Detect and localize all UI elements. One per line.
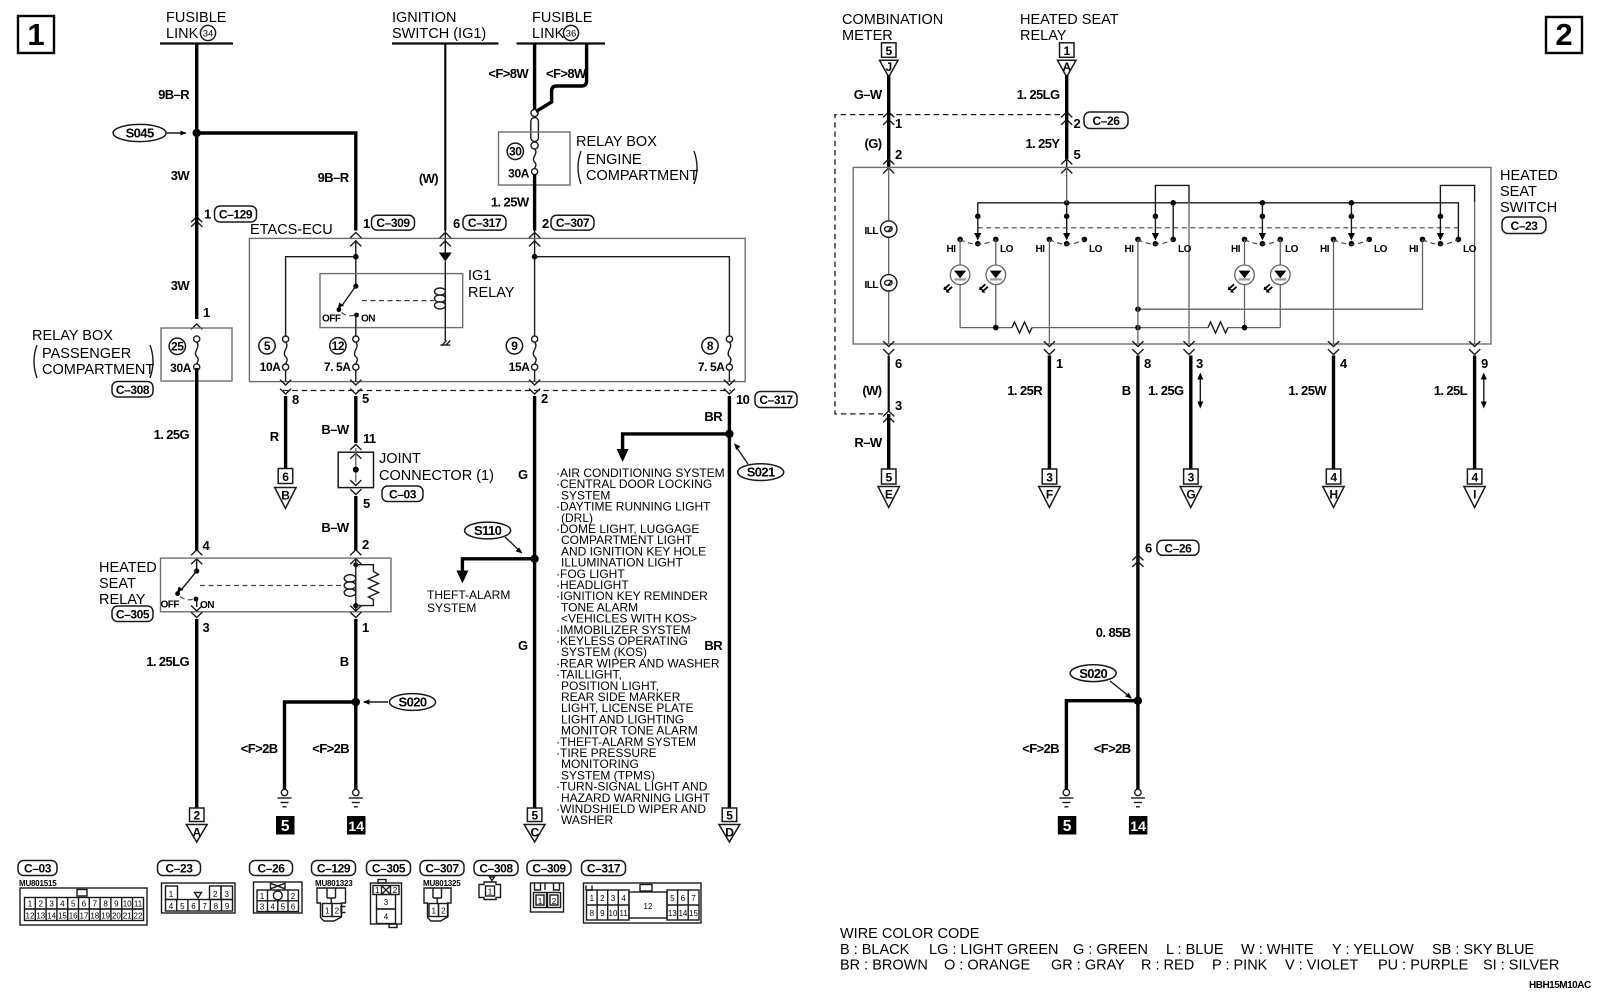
splice S045 [113, 124, 201, 141]
wire S045 branch right to ETACS pin 1 [197, 133, 356, 231]
pin5 wire to g2 center [1066, 167, 1068, 202]
wire fusible link 34 down to S045 [195, 44, 198, 134]
svg-text:HEATED: HEATED [99, 560, 157, 576]
terminal 4-I [1464, 469, 1485, 508]
svg-text:4: 4 [60, 900, 65, 909]
g4 center feed [1259, 203, 1266, 241]
svg-text:3W: 3W [171, 168, 191, 183]
svg-text:HI: HI [1409, 244, 1419, 255]
svg-text:C–26: C–26 [257, 862, 285, 876]
svg-text:JOINT: JOINT [379, 451, 421, 467]
svg-text:5: 5 [362, 391, 369, 406]
ETACS branch to fuse 5 [286, 257, 356, 336]
LED g1 LO [980, 239, 1006, 327]
svg-text:SWITCH: SWITCH [1500, 200, 1557, 216]
svg-text:3W: 3W [171, 278, 191, 293]
connector C-129 pinout [317, 888, 346, 921]
svg-text:1: 1 [431, 907, 436, 916]
svg-text:2: 2 [552, 897, 557, 906]
svg-text:2: 2 [441, 907, 446, 916]
svg-text:1. 25W: 1. 25W [491, 195, 530, 210]
svg-text:4: 4 [1471, 471, 1478, 485]
g6 HI return line [1135, 239, 1422, 312]
wire 1.25LG relay to crossing [1065, 75, 1068, 111]
svg-text:1. 25G: 1. 25G [154, 427, 190, 442]
svg-text:F: F [1046, 488, 1053, 502]
svg-text:10: 10 [609, 909, 618, 918]
svg-text:6: 6 [895, 356, 902, 371]
wire color code [840, 926, 1559, 974]
bus junction dots [1064, 200, 1354, 206]
svg-text:J: J [886, 60, 892, 74]
switch box exit chevrons pin4 [1328, 341, 1339, 354]
svg-text:2: 2 [393, 886, 398, 895]
svg-text:H: H [1329, 488, 1337, 502]
svg-text:RELAY: RELAY [1020, 28, 1067, 44]
rocker g3 [1125, 237, 1192, 255]
svg-text:R : RED: R : RED [1141, 958, 1194, 974]
wire IG1 down to ETACS pin 6 [444, 44, 446, 231]
svg-text:ILL: ILL [865, 226, 879, 237]
svg-text:IG1: IG1 [468, 268, 491, 284]
svg-text:<F>8W: <F>8W [546, 66, 587, 81]
svg-text:4: 4 [621, 894, 626, 903]
terminal 4-H [1323, 469, 1344, 508]
IG1 relay coil ground [440, 341, 450, 346]
ETACS branch to fuse 8 [535, 257, 730, 336]
svg-text:34: 34 [203, 29, 214, 40]
svg-text:4: 4 [169, 902, 174, 911]
wire 2 C-307 to ETACS box [534, 231, 536, 242]
svg-text:ENGINE: ENGINE [586, 152, 642, 168]
connector C-309 pinout [531, 883, 564, 912]
svg-text:6: 6 [291, 903, 296, 912]
fuse 8 output to box edge [728, 370, 730, 382]
terminal 5-E [878, 469, 899, 508]
chevrons ETACS pin6 entry [440, 233, 451, 238]
svg-text:6: 6 [82, 900, 87, 909]
svg-text:LINK: LINK [166, 26, 199, 42]
IG1 relay linkage dashed [362, 300, 434, 302]
joint connector chevron top [350, 445, 361, 450]
svg-text:2: 2 [895, 147, 902, 162]
fuse 12 output to box edge [355, 370, 357, 382]
connector C-308 pinout [479, 877, 501, 900]
joint connector 1 C-03 [338, 448, 373, 488]
svg-text:LO: LO [1000, 244, 1014, 255]
wire fusible link 36 right leg [536, 44, 587, 112]
wire fusible link 36 left leg [533, 44, 536, 110]
LED g1 HI [944, 239, 970, 327]
switch box exit chevrons pin8 [1132, 341, 1143, 354]
rocker g2 [1036, 237, 1103, 255]
svg-text:A: A [1063, 60, 1072, 74]
heated seat relay box left [161, 558, 392, 612]
ETACS wire pin1 to relay switch [353, 240, 359, 286]
svg-text:12: 12 [332, 339, 345, 353]
svg-text:9: 9 [600, 909, 605, 918]
svg-text:1. 25W: 1. 25W [1288, 383, 1327, 398]
svg-text:30: 30 [509, 145, 522, 159]
relay box engine caption [576, 134, 698, 184]
svg-text:LO: LO [1089, 244, 1103, 255]
svg-text:11: 11 [363, 431, 376, 446]
svg-text:LO: LO [1374, 244, 1388, 255]
svg-text:16: 16 [69, 912, 78, 921]
ignition switch IG1 [392, 10, 499, 44]
terminal 5-D [719, 808, 740, 842]
svg-text:4: 4 [384, 913, 389, 922]
svg-text:9B–R: 9B–R [158, 87, 190, 102]
svg-text:C–305: C–305 [116, 607, 150, 621]
svg-text:3: 3 [260, 903, 265, 912]
fuse 9 output to box edge [534, 370, 536, 382]
svg-text:1: 1 [363, 216, 370, 231]
wire G-W meter to switch [887, 75, 890, 111]
svg-text:C–309: C–309 [376, 216, 410, 230]
svg-text:5: 5 [1074, 147, 1081, 162]
svg-text:6: 6 [453, 216, 460, 231]
svg-text:5: 5 [180, 902, 185, 911]
IG1 relay diode [439, 240, 452, 262]
connector C-307 label [420, 861, 464, 889]
relay box passenger compartment C-308 [161, 328, 232, 381]
chevrons into heated seat relay pin 2 [350, 550, 361, 564]
heated seat relay caption right [1020, 12, 1119, 44]
rocker g6 [1409, 237, 1477, 255]
g2 center feed arrow [1063, 214, 1070, 241]
svg-text:SEAT: SEAT [99, 576, 136, 592]
svg-text:BR : BROWN: BR : BROWN [840, 958, 928, 974]
wire G pin2 ETACS to terminal C [533, 396, 536, 808]
switch box exit chevrons pin9 [1469, 341, 1480, 354]
rocker g5 [1320, 237, 1388, 255]
terminal 3-G [1180, 469, 1201, 508]
svg-text:O : ORANGE: O : ORANGE [944, 958, 1031, 974]
terminal 6-B [275, 469, 296, 509]
chevrons ETACS pin2 entry [529, 233, 540, 238]
heated seat relay switch [161, 560, 215, 611]
chevrons into switch box pin 5 [1066, 159, 1068, 167]
svg-text:2: 2 [1074, 116, 1081, 131]
svg-text:HI: HI [1036, 244, 1046, 255]
svg-text:10: 10 [736, 392, 750, 407]
wire BR pin10 ETACS to terminal D [728, 396, 731, 808]
wire 1.25R to terminal F [1048, 356, 1051, 469]
svg-text:A: A [193, 826, 202, 840]
fusible link 36 [517, 10, 606, 44]
svg-text:2: 2 [39, 900, 44, 909]
svg-text:10: 10 [123, 900, 132, 909]
fuse 8 7.5A [698, 336, 733, 374]
connector C-305 pinout [371, 880, 402, 928]
pin1 wire g2 HI [1048, 239, 1050, 344]
g6 center feed [1437, 214, 1444, 241]
svg-text:5: 5 [726, 809, 733, 823]
IG1 relay switch [322, 284, 375, 337]
pin8 wire g3 HI [1137, 239, 1139, 344]
chevron into relay box C-308 [191, 324, 202, 329]
svg-text:5: 5 [71, 900, 76, 909]
svg-text:5: 5 [281, 903, 286, 912]
svg-text:RELAY BOX: RELAY BOX [576, 134, 657, 150]
connector C-305 label [367, 861, 411, 876]
svg-text:S021: S021 [747, 465, 775, 480]
svg-text:3: 3 [1188, 471, 1195, 485]
svg-text:RELAY: RELAY [468, 285, 515, 301]
ETACS pin 10 exit chevrons [724, 380, 735, 394]
svg-text:5: 5 [670, 894, 675, 903]
wire relay box 30 down to ETACS pin 2 [533, 174, 536, 231]
pin4 wire g5 HI [1333, 239, 1335, 344]
svg-text:<F>8W: <F>8W [488, 66, 529, 81]
ground ref square 14 right [1129, 816, 1148, 835]
svg-text:22: 22 [134, 912, 143, 921]
svg-text:MU801515: MU801515 [19, 879, 57, 888]
svg-text:9: 9 [511, 339, 518, 353]
svg-text:SEAT: SEAT [1500, 184, 1537, 200]
svg-text:1. 25LG: 1. 25LG [146, 654, 189, 669]
svg-text:LINK: LINK [532, 26, 565, 42]
connector C-309 label [527, 861, 571, 876]
joint connector chevron bottom [350, 489, 361, 494]
svg-text:C–317: C–317 [587, 862, 621, 876]
svg-text:S045: S045 [126, 126, 154, 141]
svg-text:IGNITION: IGNITION [392, 10, 456, 26]
svg-text:ETACS-ECU: ETACS-ECU [250, 222, 333, 238]
svg-text:THEFT-ALARM: THEFT-ALARM [427, 588, 510, 602]
svg-text:1. 25L: 1. 25L [1434, 383, 1468, 398]
fuse 12 7.5A [324, 336, 359, 374]
connector C-317 pinout [584, 883, 702, 923]
svg-text:HEATED SEAT: HEATED SEAT [1020, 12, 1119, 28]
chevrons into switch box top left [883, 159, 894, 173]
svg-text:C–307: C–307 [556, 216, 590, 230]
IG1 relay caption [468, 268, 515, 301]
svg-text:C–129: C–129 [317, 862, 351, 876]
svg-text:C–308: C–308 [116, 383, 150, 397]
svg-text:B–W: B–W [321, 422, 349, 437]
double arrow 1.25L [1481, 373, 1487, 409]
svg-text:C–03: C–03 [24, 862, 52, 876]
crossing 6 C-26 [1132, 540, 1199, 567]
svg-text:1. 25G: 1. 25G [1148, 383, 1184, 398]
svg-text:1: 1 [203, 305, 210, 320]
resistor line with R1 and R2 [960, 322, 1280, 333]
svg-text:C–23: C–23 [165, 862, 193, 876]
svg-text:1: 1 [28, 900, 33, 909]
svg-text:G: G [518, 638, 528, 653]
wire C-129 down to relay box C-308 [195, 214, 198, 319]
heated seat relay linkage dashed [200, 585, 343, 587]
pin 2 label and C-26 box [1074, 112, 1129, 131]
svg-text:(G): (G) [865, 136, 882, 151]
svg-text:30A: 30A [170, 361, 192, 375]
wire R-W to terminal E [887, 414, 890, 469]
svg-text:3: 3 [1196, 356, 1203, 371]
svg-text:<F>2B: <F>2B [1094, 741, 1131, 756]
svg-text:9B–R: 9B–R [318, 170, 350, 185]
g1 center feed [974, 214, 981, 241]
connector C-307 pinout [424, 888, 451, 921]
wire C-308 down to heated seat relay [195, 368, 198, 551]
S110 junction dot [530, 555, 538, 563]
svg-text:V : VIOLET: V : VIOLET [1285, 958, 1358, 974]
svg-text:1: 1 [325, 907, 330, 916]
combination meter caption [842, 12, 943, 44]
svg-text:9: 9 [225, 902, 230, 911]
terminal 3-F [1039, 469, 1060, 508]
switch linkage dashed [978, 227, 1458, 229]
connector crossing 1 C-309 [363, 215, 415, 231]
connector crossing 6 C-317 [453, 215, 506, 231]
g6 top loop to pin 9 [1440, 185, 1474, 215]
svg-text:<F>2B: <F>2B [312, 741, 349, 756]
svg-text:E: E [885, 488, 893, 502]
ETACS wire pin2 to fuse 9 [532, 240, 538, 336]
wire 1.25Y into switch box [1065, 110, 1068, 159]
svg-text:W : WHITE: W : WHITE [1241, 942, 1314, 958]
g3 top loop to pin 3 [1155, 185, 1189, 215]
svg-text:G–W: G–W [854, 87, 883, 102]
wire S045 down to C-129 [195, 133, 198, 222]
svg-text:L : BLUE: L : BLUE [1166, 942, 1224, 958]
svg-text:ILL: ILL [865, 280, 879, 291]
wire S020 branch to grounds [285, 702, 356, 790]
crossing chevrons G-W at dashed [883, 112, 894, 125]
svg-text:18: 18 [90, 912, 99, 921]
wire 1.25G to terminal G [1189, 356, 1192, 469]
svg-text:36: 36 [566, 29, 577, 40]
switch main bus [978, 203, 1459, 240]
svg-text:1: 1 [1056, 356, 1063, 371]
terminal 1-A heated seat relay [1058, 43, 1077, 77]
relay box C-308 caption [32, 328, 154, 397]
svg-text:3: 3 [384, 898, 389, 907]
svg-text:9: 9 [114, 900, 119, 909]
splice S020 right [1070, 665, 1142, 705]
svg-text:S020: S020 [399, 695, 427, 710]
svg-text:14: 14 [678, 909, 687, 918]
svg-text:2: 2 [1555, 17, 1572, 52]
svg-text:(W): (W) [419, 171, 438, 186]
svg-text:15: 15 [58, 912, 67, 921]
svg-text:1: 1 [488, 888, 493, 897]
connector C-26 pinout [254, 882, 303, 913]
svg-text:C–305: C–305 [372, 862, 406, 876]
svg-text:G: G [1186, 488, 1195, 502]
dashed C-26 boundary [835, 115, 1060, 414]
wire 6 C-317 to ETACS box [444, 231, 446, 242]
svg-text:4: 4 [1330, 471, 1337, 485]
joint connector caption [379, 451, 494, 502]
svg-text:HI: HI [947, 244, 957, 255]
svg-text:6: 6 [191, 902, 196, 911]
svg-text:7. 5A: 7. 5A [324, 360, 351, 374]
fuse 5 output to box edge [285, 370, 287, 382]
chevron below heated seat relay pin 3 [191, 612, 202, 617]
wire B-W pin5 to joint connector [354, 396, 357, 443]
svg-text:R: R [270, 429, 280, 444]
bus drop to g3 LO [1172, 203, 1174, 240]
wire 1.25W to terminal H [1332, 356, 1335, 469]
svg-text:CONNECTOR (1): CONNECTOR (1) [379, 468, 494, 484]
svg-text:BR: BR [704, 638, 723, 653]
fusible link cartridge 30 [531, 109, 539, 149]
svg-text:HBH15M10AC: HBH15M10AC [1529, 980, 1591, 991]
svg-text:(W): (W) [862, 383, 881, 398]
svg-text:MU801325: MU801325 [423, 879, 461, 888]
svg-text:RELAY BOX: RELAY BOX [32, 328, 113, 344]
ILL bulb lower [881, 275, 897, 291]
rocker g1 [947, 237, 1014, 255]
svg-text:3: 3 [49, 900, 54, 909]
ILL wire inside switch [888, 167, 890, 344]
svg-text:1. 25LG: 1. 25LG [1017, 87, 1060, 102]
svg-text:HI: HI [1125, 244, 1135, 255]
svg-text:2: 2 [194, 809, 201, 823]
svg-text:METER: METER [842, 28, 893, 44]
svg-text:SB : SKY BLUE: SB : SKY BLUE [1432, 942, 1534, 958]
svg-text:6: 6 [1145, 541, 1152, 556]
svg-text:4: 4 [270, 903, 275, 912]
svg-text:HEATED: HEATED [1500, 168, 1558, 184]
wire into switch box [887, 110, 890, 167]
svg-text:R–W: R–W [854, 435, 882, 450]
svg-text:20: 20 [112, 912, 121, 921]
connector crossing 1 C-129 [191, 206, 256, 227]
svg-text:3: 3 [611, 894, 616, 903]
svg-text:15A: 15A [509, 360, 531, 374]
ground left circuit A [278, 789, 292, 807]
svg-text:B : BLACK: B : BLACK [840, 942, 910, 958]
svg-text:3: 3 [1046, 471, 1053, 485]
svg-text:8: 8 [103, 900, 108, 909]
crossing chevrons R-W [883, 411, 894, 422]
svg-text:1: 1 [169, 890, 174, 899]
LED g4 LO [1264, 239, 1290, 327]
svg-text:1: 1 [538, 897, 543, 906]
chevron below heated seat relay pin 1 [350, 606, 361, 611]
svg-text:PU : PURPLE: PU : PURPLE [1378, 958, 1469, 974]
svg-text:8: 8 [707, 339, 714, 353]
svg-text:OFF: OFF [161, 600, 180, 611]
svg-text:11: 11 [134, 900, 143, 909]
connector C-03 label [18, 861, 57, 889]
svg-text:S110: S110 [474, 523, 502, 538]
svg-text:C–23: C–23 [1510, 219, 1538, 233]
svg-text:COMPARTMENT: COMPARTMENT [586, 168, 698, 184]
svg-text:ON: ON [361, 314, 375, 325]
fuse 9 15A [506, 336, 538, 374]
svg-text:6: 6 [681, 894, 686, 903]
switch box exit chevrons pin6 [883, 341, 894, 354]
svg-text:C: C [530, 826, 539, 840]
svg-text:10A: 10A [260, 360, 282, 374]
terminal 2-A [186, 808, 207, 842]
branch to system list arrow [617, 434, 730, 462]
wire relay to terminal A [195, 619, 198, 808]
svg-text:2: 2 [213, 890, 218, 899]
ground right circuit A [1059, 789, 1073, 807]
IG1 relay box [320, 274, 463, 328]
svg-text:BR: BR [704, 409, 723, 424]
wire (W) pin6 down [888, 356, 890, 412]
ETACS pin 8 exit chevrons [280, 380, 291, 394]
svg-text:S020: S020 [1079, 666, 1107, 681]
svg-text:LO: LO [1285, 244, 1299, 255]
wire 1.25L to terminal I [1473, 356, 1476, 469]
